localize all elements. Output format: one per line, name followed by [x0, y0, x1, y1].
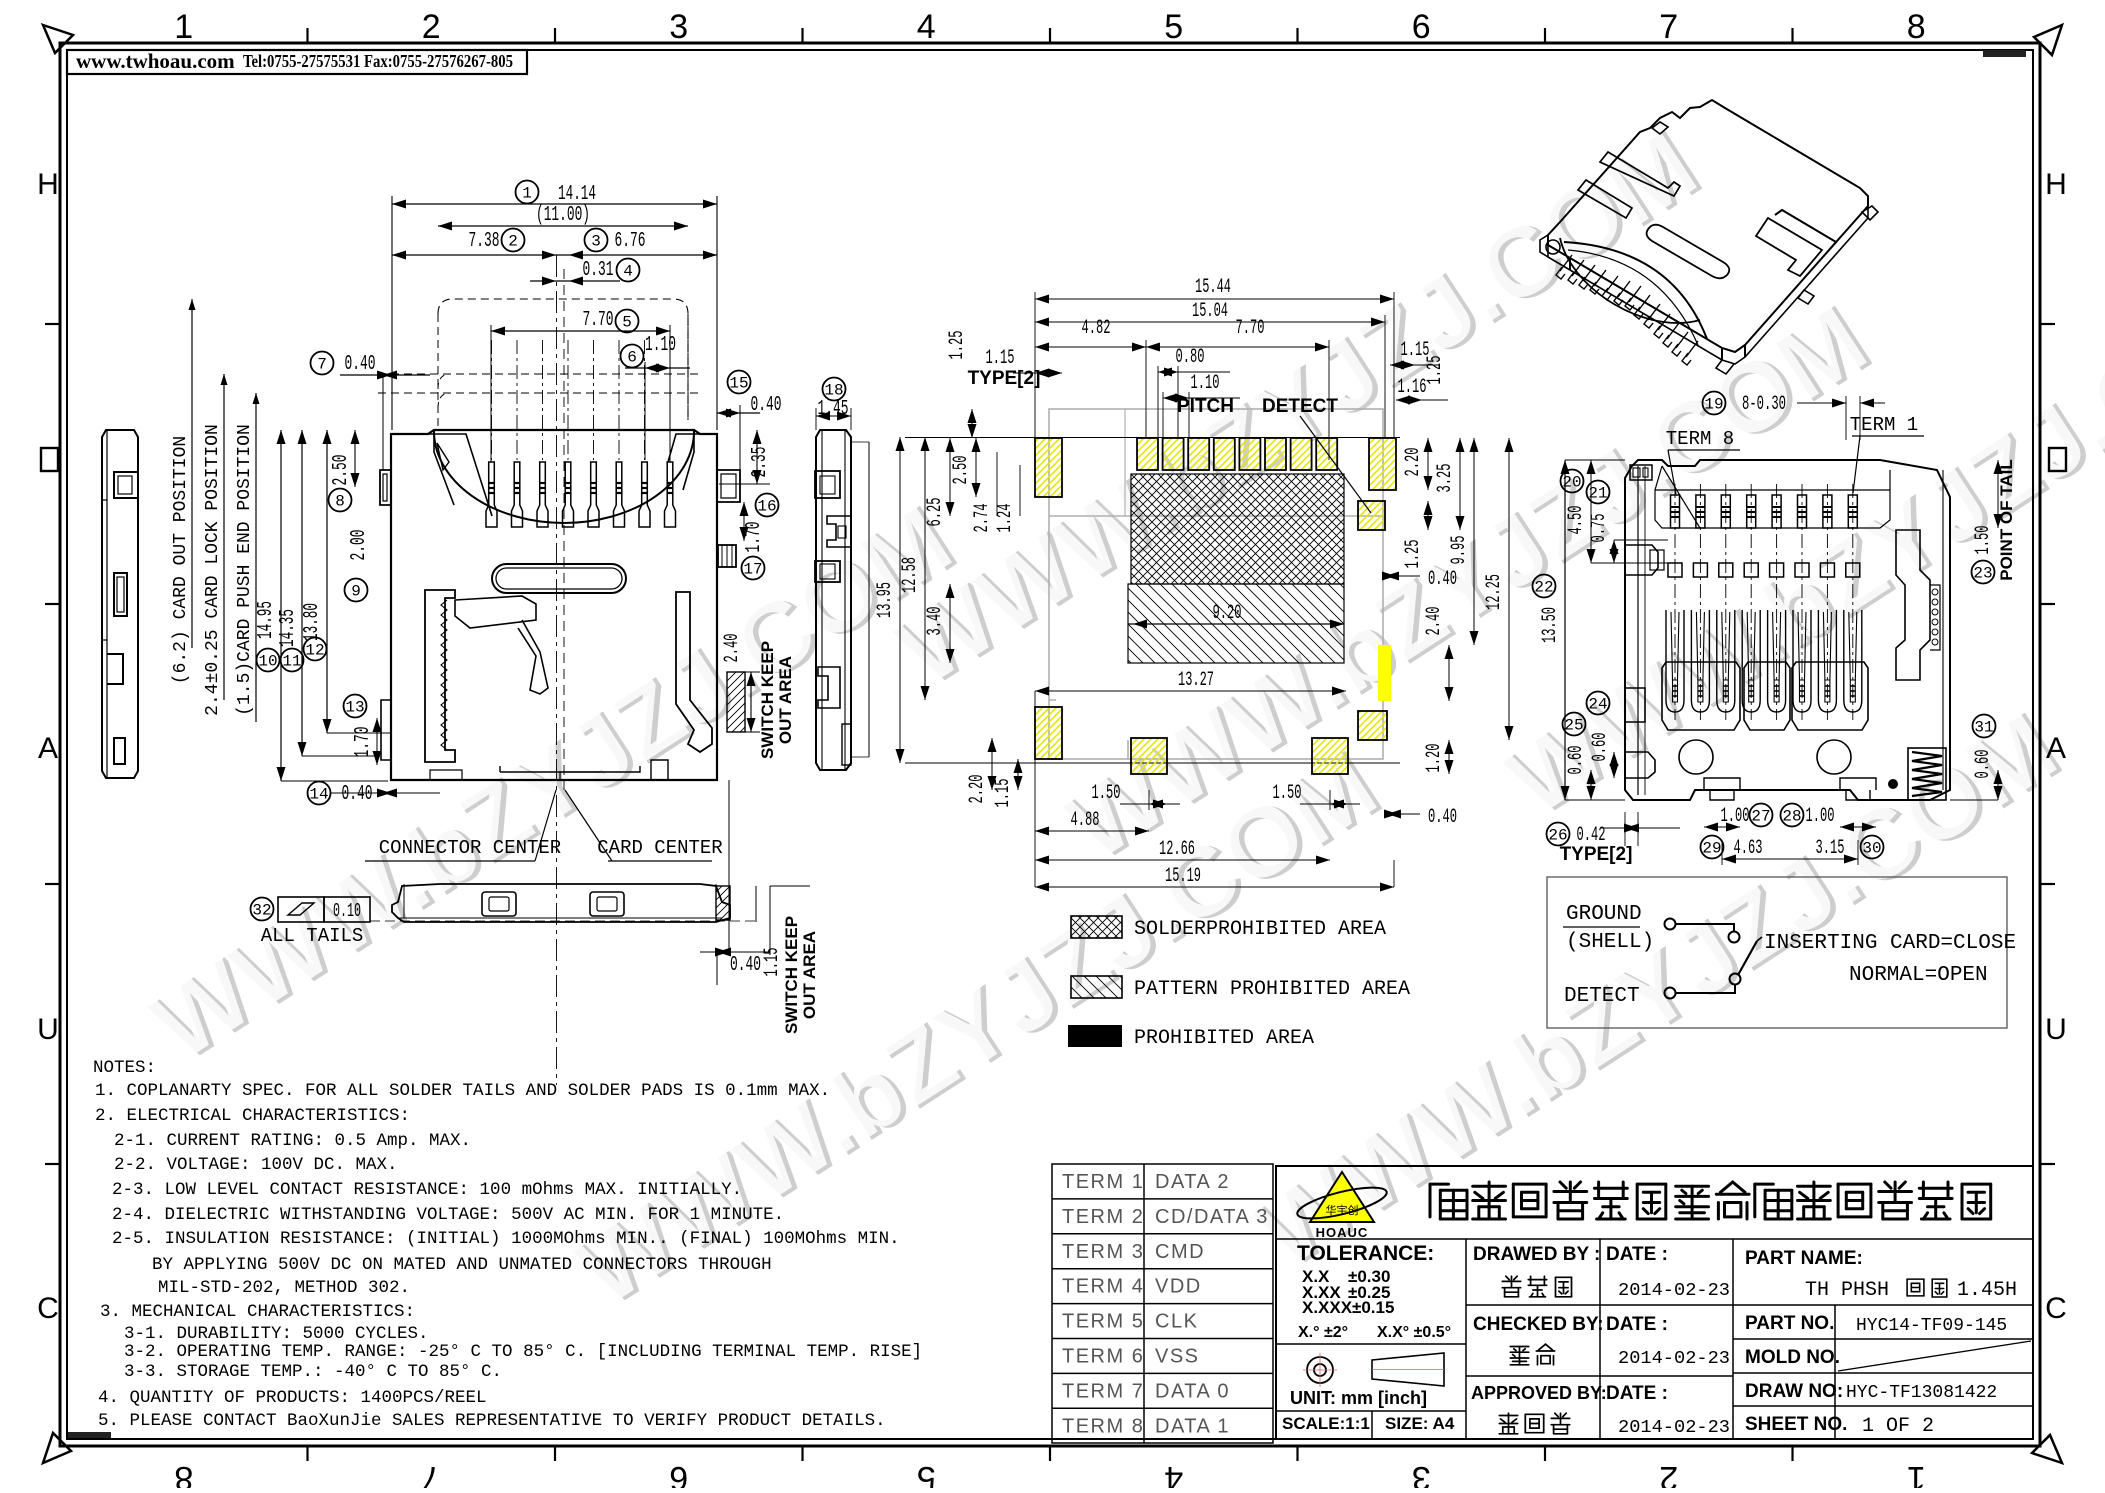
svg-text:CLK: CLK [1155, 1311, 1198, 1333]
svg-text:1.10: 1.10 [1191, 372, 1220, 395]
svg-text:2-2. VOLTAGE: 100V DC. MAX.: 2-2. VOLTAGE: 100V DC. MAX. [114, 1155, 398, 1175]
svg-text:2.00: 2.00 [348, 530, 371, 561]
svg-text:7: 7 [317, 355, 327, 373]
svg-text:±0.15: ±0.15 [1352, 1298, 1394, 1317]
svg-text:3-3. STORAGE TEMP.: -40° C TO: 3-3. STORAGE TEMP.: -40° C TO 85° C. [124, 1362, 502, 1382]
svg-text:1.70: 1.70 [743, 522, 766, 553]
svg-text:15.44: 15.44 [1195, 276, 1231, 299]
solder prohibited swatch [1071, 916, 1122, 938]
svg-text:CD/DATA 3: CD/DATA 3 [1155, 1206, 1269, 1228]
dashed card position outlines [438, 299, 688, 420]
svg-text:(11.00): (11.00) [536, 204, 590, 227]
main top view shell outline [391, 430, 717, 780]
svg-text:2. ELECTRICAL CHARACTERISTICS:: 2. ELECTRICAL CHARACTERISTICS: [95, 1106, 410, 1126]
svg-text:3-1. DURABILITY: 5000 CYCLES.: 3-1. DURABILITY: 5000 CYCLES. [124, 1324, 429, 1344]
svg-text:2-1. CURRENT RATING: 0.5 Amp.: 2-1. CURRENT RATING: 0.5 Amp. MAX. [114, 1131, 471, 1151]
svg-text:7.70: 7.70 [1236, 317, 1265, 340]
svg-text:1.15: 1.15 [761, 948, 784, 977]
svg-text:TERM 4: TERM 4 [1062, 1276, 1144, 1298]
left side view [102, 430, 138, 778]
svg-text:2: 2 [422, 8, 441, 46]
svg-text:MIL-STD-202, METHOD 302.: MIL-STD-202, METHOD 302. [158, 1278, 410, 1298]
svg-text:MOLD NO.: MOLD NO. [1745, 1347, 1840, 1368]
svg-text:1: 1 [174, 8, 193, 46]
svg-text:2.40: 2.40 [1423, 607, 1446, 636]
svg-text:(1.5)CARD PUSH END POSITION: (1.5)CARD PUSH END POSITION [235, 424, 255, 716]
svg-text:8: 8 [1907, 8, 1926, 46]
svg-text:8: 8 [174, 1459, 193, 1488]
elliptical card cutout [434, 431, 694, 523]
svg-text:2: 2 [508, 232, 518, 250]
dims 15,16,17 right [728, 371, 751, 394]
svg-text:2.40: 2.40 [721, 634, 744, 663]
svg-text:8: 8 [335, 492, 345, 510]
svg-text:DETECT: DETECT [1262, 396, 1338, 417]
svg-text:1.25: 1.25 [1424, 356, 1447, 385]
svg-text:1.50: 1.50 [1092, 782, 1121, 805]
svg-text:HYC-TF13081422: HYC-TF13081422 [1846, 1383, 1997, 1403]
prohibited swatch [1068, 1025, 1122, 1047]
svg-text:4: 4 [623, 262, 633, 280]
svg-text:7: 7 [422, 1459, 441, 1488]
svg-text:27: 27 [1751, 807, 1770, 825]
wire detect to contact [1676, 985, 1736, 994]
svg-text:3.15: 3.15 [1816, 837, 1845, 860]
8 solder pads top row [1137, 438, 1158, 470]
dim 4: 0.31 [530, 280, 620, 282]
svg-text:0.40: 0.40 [1428, 806, 1457, 829]
switch blade [1738, 941, 1757, 975]
svg-text:0.40: 0.40 [730, 954, 761, 977]
svg-text:15.19: 15.19 [1165, 865, 1201, 888]
svg-text:CONNECTOR CENTER: CONNECTOR CENTER [379, 837, 561, 859]
svg-text:TERM 2: TERM 2 [1062, 1206, 1144, 1228]
dim 2: 7.38 / dim 3: 6.76 [392, 254, 717, 256]
svg-text:OUT AREA: OUT AREA [800, 931, 819, 1019]
svg-text:DATA 0: DATA 0 [1155, 1380, 1230, 1402]
svg-text:X.X° ±0.5°: X.X° ±0.5° [1377, 1324, 1451, 1341]
svg-text:HOAUC: HOAUC [1316, 1225, 1369, 1240]
svg-text:2-3. LOW LEVEL CONTACT RESISTA: 2-3. LOW LEVEL CONTACT RESISTANCE: 100 m… [112, 1180, 742, 1200]
svg-text:TYPE[2]: TYPE[2] [1560, 844, 1633, 865]
dim 7: 0.40 [311, 352, 334, 375]
svg-text:1.10: 1.10 [645, 334, 676, 357]
left shell pad [1035, 438, 1062, 497]
connector / card centerlines [556, 255, 558, 1085]
svg-text:9: 9 [351, 582, 361, 600]
svg-text:4.88: 4.88 [1071, 809, 1100, 832]
svg-text:DATE :: DATE : [1606, 1383, 1668, 1404]
svg-text:6.76: 6.76 [615, 230, 646, 253]
projection symbols [1307, 1357, 1333, 1383]
svg-text:7.70: 7.70 [583, 309, 614, 332]
svg-text:SWITCH KEEP: SWITCH KEEP [782, 916, 801, 1034]
svg-text:1.15: 1.15 [992, 779, 1015, 808]
svg-text:2.50: 2.50 [330, 455, 353, 486]
dim (11.00) [438, 225, 688, 227]
solder prohibited crosshatch region [1131, 474, 1344, 584]
svg-text:1.25: 1.25 [946, 331, 969, 360]
svg-text:2014-02-23: 2014-02-23 [1618, 1417, 1730, 1438]
svg-text:1.00: 1.00 [1806, 805, 1835, 828]
svg-text:0.60: 0.60 [1972, 750, 1995, 779]
svg-text:DATE :: DATE : [1606, 1244, 1668, 1265]
svg-text:1: 1 [522, 184, 532, 202]
svg-text:22: 22 [1534, 578, 1553, 596]
svg-text:2.20: 2.20 [966, 775, 989, 804]
svg-text:(SHELL): (SHELL) [1566, 931, 1654, 954]
locating holes [1679, 740, 1713, 774]
svg-text:5: 5 [917, 1459, 936, 1488]
svg-text:SIZE: A4: SIZE: A4 [1385, 1414, 1455, 1433]
svg-text:1: 1 [1907, 1459, 1926, 1488]
svg-text:6.25: 6.25 [924, 498, 947, 527]
svg-text:H: H [37, 168, 59, 201]
contact fingers [1662, 662, 1740, 730]
svg-text:14.95: 14.95 [255, 601, 278, 639]
svg-text:7.38: 7.38 [469, 230, 500, 253]
svg-text:6: 6 [627, 348, 637, 366]
svg-text:5. PLEASE CONTACT BaoXunJie SA: 5. PLEASE CONTACT BaoXunJie SALES REPRES… [98, 1411, 886, 1431]
svg-text:4.50: 4.50 [1565, 506, 1588, 535]
8 contact pins [486, 340, 497, 527]
svg-text:26: 26 [1548, 826, 1567, 844]
switch keep out hatched area [727, 672, 745, 732]
svg-text:PITCH: PITCH [1177, 396, 1234, 417]
svg-text:0.60: 0.60 [1565, 746, 1588, 775]
svg-text:SCALE:1:1: SCALE:1:1 [1282, 1414, 1370, 1433]
svg-text:DETECT: DETECT [1564, 985, 1640, 1008]
svg-text:3. MECHANICAL CHARACTERISTICS:: 3. MECHANICAL CHARACTERISTICS: [100, 1302, 415, 1322]
pattern prohibited region [1128, 584, 1344, 663]
svg-text:16: 16 [757, 497, 776, 515]
svg-text:BY APPLYING 500V DC ON MATED: BY APPLYING 500V DC ON MATED AND UNMATED… [152, 1255, 772, 1275]
shell left edge tabs [380, 470, 391, 505]
svg-text:14.35: 14.35 [277, 609, 300, 647]
svg-text:VSS: VSS [1155, 1346, 1200, 1368]
svg-text:0.31: 0.31 [583, 259, 614, 282]
svg-text:CMD: CMD [1155, 1241, 1205, 1263]
svg-text:A: A [38, 732, 58, 765]
svg-text:12.66: 12.66 [1159, 838, 1195, 861]
svg-text:2014-02-23: 2014-02-23 [1618, 1348, 1730, 1369]
svg-text:4. QUANTITY OF PRODUCTS: 1400P: 4. QUANTITY OF PRODUCTS: 1400PCS/REEL [98, 1388, 487, 1408]
spring [1912, 752, 1942, 796]
svg-text:0.10: 0.10 [333, 900, 361, 922]
svg-text:3.40: 3.40 [924, 607, 947, 636]
svg-text:UNIT: mm [inch]: UNIT: mm [inch] [1290, 1388, 1427, 1408]
svg-text:2.4±0.25 CARD LOCK POSITION: 2.4±0.25 CARD LOCK POSITION [203, 424, 223, 716]
svg-text:2: 2 [1659, 1459, 1678, 1488]
svg-text:H: H [2045, 168, 2067, 201]
svg-text:25: 25 [1564, 716, 1583, 734]
svg-text:2.50: 2.50 [950, 456, 973, 485]
svg-text:2.20: 2.20 [1402, 448, 1425, 477]
svg-text:DATA 1: DATA 1 [1155, 1415, 1230, 1437]
svg-text:CHECKED BY:: CHECKED BY: [1473, 1314, 1604, 1335]
svg-text:DRAW NO:: DRAW NO: [1745, 1381, 1843, 1402]
svg-text:VDD: VDD [1155, 1276, 1202, 1298]
svg-text:C: C [2045, 1292, 2067, 1325]
svg-text:4.63: 4.63 [1734, 837, 1763, 860]
svg-text:6: 6 [1412, 8, 1431, 46]
svg-text:13.50: 13.50 [1539, 607, 1562, 643]
svg-text:30: 30 [1862, 839, 1881, 857]
svg-text:A: A [2046, 732, 2066, 765]
8 terminals with centerlines [1668, 484, 1682, 720]
svg-text:ALL TAILS: ALL TAILS [261, 925, 364, 947]
svg-text:13.80: 13.80 [301, 603, 324, 641]
dims 10,11,12 vertical [280, 430, 282, 781]
svg-text:NOTES:: NOTES: [93, 1058, 156, 1078]
svg-text:1.20: 1.20 [1423, 744, 1446, 773]
svg-text:U: U [2045, 1013, 2067, 1046]
company name (Chinese glyphs) [1430, 1184, 1467, 1219]
svg-text:0.40: 0.40 [1428, 568, 1457, 591]
company logo [1310, 1172, 1374, 1222]
svg-text:5: 5 [1164, 8, 1183, 46]
svg-text:3: 3 [591, 232, 601, 250]
svg-text:2-5. INSULATION RESISTANCE: (I: 2-5. INSULATION RESISTANCE: (INITIAL) 10… [112, 1229, 900, 1249]
inner lever / spring detail left [425, 590, 455, 762]
svg-text:29: 29 [1702, 839, 1721, 857]
svg-text:1.50: 1.50 [1972, 526, 1995, 555]
svg-text:2014-02-23: 2014-02-23 [1618, 1280, 1730, 1301]
svg-text:TERM 5: TERM 5 [1062, 1311, 1144, 1333]
svg-text:14.14: 14.14 [558, 183, 596, 206]
svg-text:NORMAL=OPEN: NORMAL=OPEN [1849, 964, 1988, 987]
svg-text:1.16: 1.16 [1398, 376, 1427, 399]
svg-text:4: 4 [917, 8, 936, 46]
svg-text:DATE :: DATE : [1606, 1314, 1668, 1335]
svg-text:12: 12 [305, 641, 324, 659]
detect pad [1358, 501, 1385, 530]
svg-text:PATTERN PROHIBITED AREA: PATTERN PROHIBITED AREA [1134, 978, 1410, 1001]
svg-text:C: C [37, 1292, 59, 1325]
svg-text:Tel:0755-27575531 Fax:0755-27: Tel:0755-27575531 Fax:0755-27576267-805 [243, 51, 513, 71]
svg-text:1. COPLANARTY SPEC. FOR ALL SO: 1. COPLANARTY SPEC. FOR ALL SOLDER TAILS… [95, 1081, 830, 1101]
bottom pads [1035, 707, 1062, 759]
svg-text:SHEET NO.: SHEET NO. [1745, 1414, 1847, 1435]
svg-text:6: 6 [669, 1459, 688, 1488]
svg-text:32: 32 [252, 901, 271, 919]
svg-text:12.25: 12.25 [1483, 574, 1506, 610]
svg-text:0.80: 0.80 [1176, 346, 1205, 369]
svg-text:U: U [37, 1013, 59, 1046]
svg-text:APPROVED BY:: APPROVED BY: [1471, 1383, 1607, 1403]
svg-text:31: 31 [1974, 718, 1993, 736]
svg-text:28: 28 [1782, 807, 1801, 825]
svg-text:www.twhoau.com: www.twhoau.com [76, 49, 235, 73]
svg-text:8-0.30: 8-0.30 [1742, 393, 1786, 416]
svg-text:CARD CENTER: CARD CENTER [597, 837, 722, 859]
svg-text:INSERTING CARD=CLOSE: INSERTING CARD=CLOSE [1764, 932, 2016, 955]
svg-text:PART NAME:: PART NAME: [1745, 1248, 1863, 1269]
svg-text:DATA 2: DATA 2 [1155, 1171, 1230, 1193]
svg-text:15.04: 15.04 [1192, 300, 1228, 323]
svg-text:11: 11 [282, 652, 301, 670]
svg-text:1.70: 1.70 [352, 727, 375, 758]
flag 32: coplanarity 0.10 ALL TAILS [251, 898, 274, 921]
right shell pad [1369, 438, 1396, 490]
svg-text:TH PHSH: TH PHSH [1805, 1279, 1889, 1302]
svg-text:2.74: 2.74 [971, 504, 994, 533]
svg-text:DRAWED BY :: DRAWED BY : [1473, 1244, 1600, 1265]
svg-text:TERM 6: TERM 6 [1062, 1346, 1144, 1368]
svg-text:SOLDERPROHIBITED AREA: SOLDERPROHIBITED AREA [1134, 918, 1386, 941]
svg-text:PROHIBITED AREA: PROHIBITED AREA [1134, 1027, 1314, 1050]
svg-text:GROUND: GROUND [1566, 903, 1642, 926]
svg-text:12.58: 12.58 [899, 557, 922, 593]
svg-text:24: 24 [1588, 695, 1607, 713]
svg-text:4.82: 4.82 [1082, 317, 1111, 340]
wire ground to contact [1676, 924, 1735, 932]
pattern prohibited swatch [1071, 976, 1122, 998]
watermark texts [130, 481, 975, 1086]
svg-text:PART NO.: PART NO. [1745, 1313, 1834, 1334]
zone tick marks [306, 28, 308, 43]
svg-text:13.95: 13.95 [874, 582, 897, 618]
right side latch detail [1896, 530, 1930, 680]
svg-text:1.45H: 1.45H [1957, 1279, 2017, 1302]
svg-text:13: 13 [345, 698, 364, 716]
svg-text:1.00: 1.00 [1721, 805, 1750, 828]
svg-text:15: 15 [729, 374, 748, 392]
svg-text:(6.2) CARD OUT POSITION: (6.2) CARD OUT POSITION [171, 436, 191, 684]
svg-text:0.60: 0.60 [1589, 733, 1612, 762]
svg-text:TERM 1: TERM 1 [1062, 1171, 1144, 1193]
svg-text:华宇创: 华宇创 [1326, 1203, 1359, 1218]
oval slot [492, 564, 626, 593]
svg-text:TYPE[2]: TYPE[2] [968, 368, 1041, 389]
svg-text:3: 3 [669, 8, 688, 46]
svg-text:1.50: 1.50 [1273, 782, 1302, 805]
svg-text:5: 5 [622, 313, 632, 331]
svg-text:0.40: 0.40 [342, 783, 373, 806]
switch contact terminals [1665, 919, 1676, 930]
svg-text:18: 18 [824, 381, 843, 399]
svg-text:4: 4 [1164, 1459, 1183, 1488]
svg-text:1.15: 1.15 [986, 347, 1015, 370]
yellow prohibited strip [1378, 645, 1391, 701]
svg-text:SWITCH KEEP: SWITCH KEEP [758, 641, 777, 759]
corner arrow marks [43, 25, 73, 53]
svg-text:10: 10 [258, 652, 277, 670]
svg-text:TERM 3: TERM 3 [1062, 1241, 1144, 1263]
svg-text:3: 3 [1412, 1459, 1431, 1488]
svg-text:OUT AREA: OUT AREA [776, 656, 795, 744]
svg-text:19: 19 [1704, 395, 1723, 413]
svg-text:3-2. OPERATING TEMP. RANGE: -2: 3-2. OPERATING TEMP. RANGE: -25° C TO 85… [124, 1342, 922, 1362]
svg-text:TERM 8: TERM 8 [1062, 1415, 1144, 1437]
svg-text:17: 17 [743, 560, 762, 578]
svg-text:0.40: 0.40 [345, 353, 376, 376]
inner hook detail right [676, 592, 712, 752]
svg-text:X.° ±2°: X.° ±2° [1298, 1324, 1348, 1341]
svg-text:X.XXX: X.XXX [1302, 1298, 1353, 1317]
svg-text:2-4. DIELECTRIC WITHSTANDING V: 2-4. DIELECTRIC WITHSTANDING VOLTAGE: 50… [112, 1205, 784, 1225]
svg-text:14: 14 [309, 785, 328, 803]
svg-text:TERM 7: TERM 7 [1062, 1380, 1144, 1402]
svg-text:HYC14-TF09-145: HYC14-TF09-145 [1856, 1316, 2007, 1336]
dim 6: 1.10 [625, 367, 690, 369]
svg-text:TERM 8: TERM 8 [1666, 428, 1734, 450]
svg-text:13.27: 13.27 [1178, 669, 1214, 692]
svg-text:23: 23 [1973, 564, 1992, 582]
svg-text:1 OF 2: 1 OF 2 [1862, 1415, 1934, 1438]
svg-text:7: 7 [1659, 8, 1678, 46]
card position labels [191, 299, 193, 648]
svg-text:TOLERANCE:: TOLERANCE: [1297, 1242, 1434, 1265]
dim 1: 14.14 [392, 203, 717, 205]
shell right edge tabs [717, 470, 740, 502]
header website box [67, 50, 527, 74]
svg-text:9.95: 9.95 [1448, 536, 1471, 565]
dim 5: 7.70 [491, 330, 670, 332]
svg-text:3.25: 3.25 [1434, 464, 1457, 493]
svg-text:9.20: 9.20 [1213, 602, 1242, 625]
svg-text:1.25: 1.25 [1402, 540, 1425, 569]
